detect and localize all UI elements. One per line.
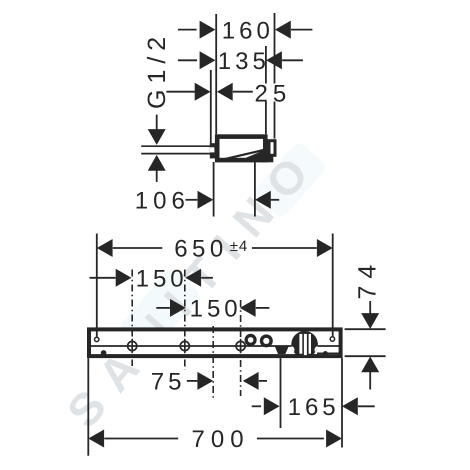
dimension 160 left arrow (200, 21, 216, 39)
dimension 150 first left arrow (116, 269, 132, 287)
watermark SANITINO (39, 115, 347, 456)
dimension 150 second right tail (256, 307, 270, 309)
screw hole left (95, 337, 99, 341)
dimension 106 left arrow (198, 191, 214, 209)
extension line 74 top (345, 328, 386, 330)
mounting crosshair 3 (236, 339, 245, 353)
dimension 150 first left tail (90, 277, 116, 279)
screw hole right (330, 337, 334, 341)
dimension 74 upper leader (369, 301, 371, 313)
dimension 150 second right arrow (240, 299, 256, 317)
dimension 74 lower leader (369, 372, 371, 390)
dimension 165 right arrow (342, 397, 358, 415)
dimension 150 second left arrow (170, 299, 186, 317)
extension line bar-right (below) (341, 358, 343, 447)
dimension 700 right arrow (326, 430, 342, 448)
svg-text:106: 106 (135, 188, 190, 215)
G1/2 lower leader (156, 170, 158, 182)
dimension 700 line left (104, 438, 178, 440)
svg-text:±4: ±4 (230, 238, 249, 255)
svg-text:74: 74 (354, 258, 382, 300)
dimension 75 right tail (259, 380, 267, 382)
dimension 106 right tail (271, 199, 279, 201)
dimension 25 right arrow (217, 83, 233, 101)
dimension 74 down arrow (361, 313, 379, 329)
extension line bar-left (below) (87, 358, 89, 456)
pipe upper line (side view) (141, 145, 211, 147)
diverter knob (trapezoid) (275, 346, 289, 354)
svg-text:150: 150 (136, 266, 188, 293)
centerline mounting 2 (184, 270, 186, 371)
dimension 75 left arrow (197, 372, 213, 390)
valve handle diagonal (220, 150, 264, 160)
dimension 700 left arrow (88, 430, 104, 448)
dimension 135 right arrow (266, 51, 282, 69)
svg-text:650: 650 (174, 236, 228, 263)
svg-text:700: 700 (192, 426, 250, 453)
bar lower step line right (317, 352, 341, 354)
dimension 75 right arrow (243, 372, 259, 390)
G1/2 down arrow (148, 129, 166, 145)
extension line body-right (side view) (265, 46, 267, 84)
dimension 25 left tail (166, 91, 195, 93)
dimension 25 right tail (233, 91, 253, 93)
pilot dot left (101, 350, 107, 356)
centerline mounting 3 (240, 300, 242, 396)
dimension 165 left tail (252, 405, 261, 407)
dimension 160 left tail (178, 29, 197, 31)
svg-text:160: 160 (222, 17, 274, 44)
centerline mounting 1 (131, 270, 133, 367)
dimension 150 second left tail (156, 307, 170, 309)
dimension 160 right arrow (275, 21, 291, 39)
G1/2 upper leader (156, 115, 158, 130)
watermark cyan streak upper-right (252, 140, 328, 219)
svg-text:G1/2: G1/2 (143, 31, 171, 109)
valve cap step (262, 156, 273, 163)
dimension 165 left arrow (264, 397, 280, 415)
valve connection tab (210, 143, 216, 158)
valve body (side view) (217, 137, 265, 161)
dimension 106 right arrow (255, 191, 271, 209)
dimension 75 leader (187, 380, 198, 382)
dimension 135 right tail (282, 59, 303, 61)
svg-text:150: 150 (190, 296, 242, 323)
svg-text:135: 135 (218, 48, 270, 75)
dimension 25 left arrow (195, 83, 211, 101)
pilot dot right (323, 351, 328, 356)
valve cap (side view) (269, 141, 275, 156)
watermark cyan streak lower-left (118, 267, 202, 355)
dimension 135 left arrow (200, 51, 216, 69)
svg-text:165: 165 (288, 394, 340, 421)
extension line 650-left (hole axis) (96, 234, 98, 337)
G1/2 up arrow (148, 155, 166, 171)
extension line cap-right (side view) (274, 13, 276, 84)
dimension 700 line right (257, 438, 324, 440)
extension line spout axis (below) (280, 358, 282, 428)
valve handle wedge (245, 150, 264, 158)
dimension 106 leader (186, 199, 198, 201)
outlet ring 2 (260, 334, 273, 347)
dimension 160 right tail (291, 29, 312, 31)
dimension 650 right arrow (317, 239, 333, 257)
extension line tab-left (side view) (210, 70, 212, 144)
dimension 150 first right arrow (185, 269, 201, 287)
dimension 650 left arrow (97, 239, 113, 257)
bar mid parting line (89, 345, 341, 347)
extension line 106-left (below body) (213, 162, 215, 217)
dimension 650 line left (113, 247, 163, 249)
svg-text:75: 75 (151, 369, 186, 396)
svg-text:25: 25 (255, 80, 292, 107)
extension line body-left (side view) (215, 14, 217, 134)
outlet ring 1 (245, 334, 257, 346)
extension line 650-right (hole axis) (332, 234, 334, 337)
dimension 165 right tail (358, 405, 375, 407)
dimension 650 line right (252, 247, 317, 249)
dimension 150 first right tail (201, 277, 213, 279)
dimension 74 up arrow (361, 357, 379, 373)
shower bar body (89, 329, 341, 356)
mounting crosshair 1 (128, 339, 137, 353)
extension line 74 bottom (345, 355, 386, 357)
centerline middle (212, 326, 214, 399)
extension line 106-right (below body) (254, 162, 256, 217)
dimension 135 left tail (178, 59, 197, 61)
pipe lower line (side view) (141, 153, 211, 155)
thermostat knob (287, 331, 323, 358)
mounting crosshair 2 (180, 339, 189, 353)
